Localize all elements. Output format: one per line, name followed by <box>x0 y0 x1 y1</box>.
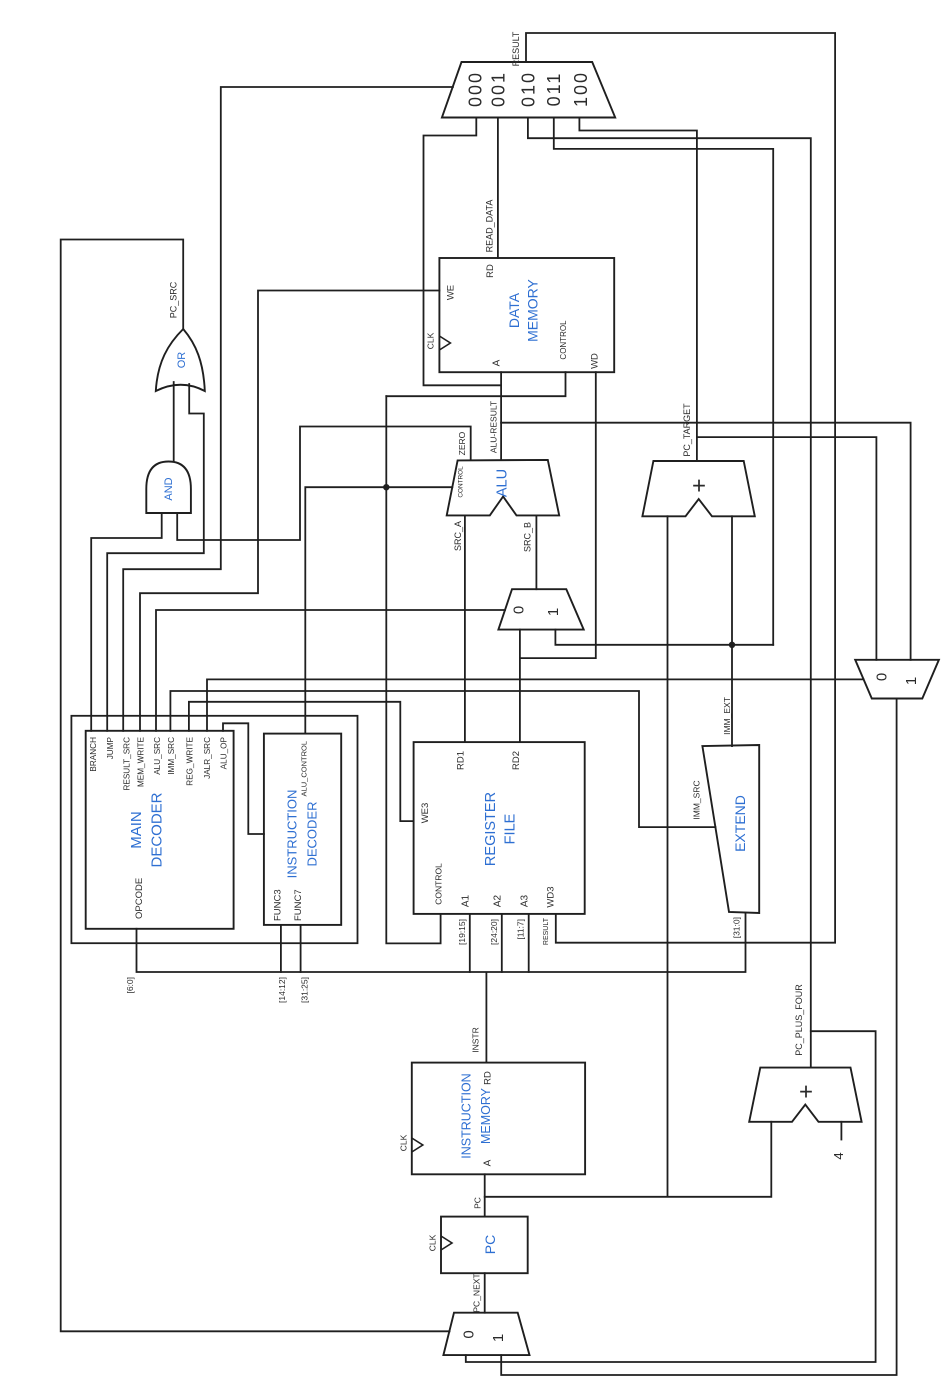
svg-text:PC_NEXT: PC_NEXT <box>472 1273 482 1312</box>
wire PC_PLUS_FOUR (adder output to result mux input 010) <box>528 119 811 1068</box>
svg-text:BRANCH: BRANCH <box>89 737 98 772</box>
svg-text:ALU: ALU <box>495 469 511 497</box>
svg-text:1: 1 <box>490 1334 507 1342</box>
svg-text:MEMORY: MEMORY <box>525 278 541 341</box>
wire IMM_EXT to result mux input 011 <box>554 119 773 645</box>
wire A1 tap [19:15] <box>469 914 471 972</box>
svg-text:RESULT: RESULT <box>543 917 550 945</box>
block PC register <box>428 1217 528 1274</box>
svg-text:WE3: WE3 <box>420 803 431 824</box>
svg-text:FUNC7: FUNC7 <box>293 889 304 921</box>
svg-text:[31:25]: [31:25] <box>300 977 310 1003</box>
svg-text:011: 011 <box>544 72 564 107</box>
svg-text:AND: AND <box>163 477 175 500</box>
svg-text:ALU_CONTROL: ALU_CONTROL <box>300 741 309 796</box>
svg-text:[11:7]: [11:7] <box>516 919 526 940</box>
svg-text:0: 0 <box>874 673 891 681</box>
svg-text:A1: A1 <box>461 894 472 907</box>
wire READ_DATA (data memory RD to result mux input 001) <box>497 119 499 258</box>
junction IMM_EXT <box>729 642 735 648</box>
wire BRANCH (main decoder to AND gate) <box>91 513 162 731</box>
adder A2 PC plus 4 (+) <box>749 1068 861 1122</box>
svg-text:RD: RD <box>483 1071 494 1085</box>
block instruction decoder <box>264 734 341 925</box>
block control unit outline <box>71 716 357 943</box>
svg-text:MEMORY: MEMORY <box>479 1087 493 1144</box>
mux M2 jalr mux (0/1) <box>855 660 939 699</box>
wire constant 4 into PC plus 4 adder <box>840 1122 842 1140</box>
svg-text:RD1: RD1 <box>456 751 467 770</box>
junction ALU_CONTROL <box>383 484 389 490</box>
wire ALU_OP (main decoder to instruction decoder) <box>223 723 264 834</box>
wire A2 tap [24:20] <box>501 914 503 972</box>
block register file <box>414 742 585 914</box>
wire instruction bus INSTR <box>137 913 746 1063</box>
svg-text:A2: A2 <box>493 894 504 907</box>
svg-text:[24:20]: [24:20] <box>489 919 499 945</box>
svg-text:4: 4 <box>831 1152 846 1159</box>
svg-text:PC: PC <box>473 1197 483 1209</box>
svg-text:[31:0]: [31:0] <box>732 917 742 938</box>
svg-text:FILE: FILE <box>503 813 519 844</box>
svg-text:REG_WRITE: REG_WRITE <box>186 736 195 785</box>
svg-text:DECODER: DECODER <box>149 792 166 867</box>
wire RD2 branch to data memory WD <box>520 372 596 658</box>
svg-text:INSTRUCTION: INSTRUCTION <box>285 790 300 879</box>
gate AND <box>146 462 191 514</box>
svg-text:DATA: DATA <box>506 292 522 328</box>
wire A3 tap [11:7] <box>528 914 530 972</box>
svg-text:RD2: RD2 <box>511 751 522 770</box>
wire JALR_SRC (select of jalr mux) <box>207 679 864 730</box>
wire ALU-RESULT branch to jalr mux input 1 <box>501 423 910 660</box>
wire IMM_SRC (main decoder to EXTEND) <box>170 691 715 827</box>
svg-text:SRC_B: SRC_B <box>523 522 533 552</box>
svg-text:001: 001 <box>489 71 509 107</box>
block extend unit <box>702 745 759 913</box>
svg-text:OPCODE: OPCODE <box>134 878 145 919</box>
wire PC_NEXT (PC mux output to PC) <box>484 1273 486 1313</box>
wire PC_TARGET branch to jalr mux input 0 <box>697 437 877 660</box>
wire PC_TARGET (adder output to result mux input 100) <box>579 119 697 462</box>
svg-text:[19:15]: [19:15] <box>457 919 467 945</box>
svg-text:MEM_WRITE: MEM_WRITE <box>137 736 146 787</box>
wire ZERO (ALU to AND gate) <box>177 427 471 541</box>
svg-text:READ_DATA: READ_DATA <box>485 200 495 253</box>
wire ALU_CONTROL (instruction decoder to ALU) <box>305 487 452 733</box>
svg-text:RD: RD <box>485 264 496 278</box>
block instruction memory <box>399 1063 586 1175</box>
svg-text:RESULT: RESULT <box>511 31 521 66</box>
svg-text:ZERO: ZERO <box>457 431 467 455</box>
wire JUMP (main decoder to OR gate) <box>107 384 204 731</box>
wire RESULT_SRC (result mux select) <box>123 87 453 731</box>
svg-text:WD3: WD3 <box>546 886 557 907</box>
svg-text:WE: WE <box>446 285 457 300</box>
svg-text:000: 000 <box>466 71 486 107</box>
wire PC_SRC (OR gate output to PC mux select) <box>61 240 450 1332</box>
svg-text:ALU_SRC: ALU_SRC <box>153 737 162 775</box>
wire PC (PC register to instruction memory A) <box>484 1174 486 1216</box>
svg-text:CONTROL: CONTROL <box>434 863 444 905</box>
block data memory <box>426 258 615 372</box>
wire REG_WRITE (main decoder to register file WE3) <box>189 702 414 821</box>
mux M1 result mux (5-way) <box>442 62 615 118</box>
wire FUNC7 tap [31:25] <box>300 925 302 972</box>
adder A1 PC target (+) <box>642 461 754 516</box>
wire RESULT (result mux output feedback to WD3) <box>526 33 835 943</box>
svg-text:CLK: CLK <box>428 1234 438 1251</box>
mux M3 ALU src B mux (0/1) <box>498 589 583 629</box>
svg-text:A: A <box>483 1159 494 1166</box>
svg-text:REGISTER: REGISTER <box>483 792 499 866</box>
svg-text:0: 0 <box>511 606 528 614</box>
wire PC_PLUS_FOUR branch to PC mux input 0 <box>466 1031 876 1362</box>
svg-text:DECODER: DECODER <box>305 801 320 866</box>
svg-text:RESULT_SRC: RESULT_SRC <box>123 737 132 791</box>
svg-text:010: 010 <box>519 71 539 107</box>
wire PC branch to adders <box>485 516 772 1197</box>
svg-text:CLK: CLK <box>399 1134 409 1151</box>
svg-text:SRC_A: SRC_A <box>453 521 463 551</box>
svg-text:IMM_SRC: IMM_SRC <box>167 737 176 775</box>
svg-text:CONTROL: CONTROL <box>559 320 568 360</box>
svg-text:[6:0]: [6:0] <box>125 977 135 994</box>
wire CONTROL to data memory <box>386 372 565 396</box>
mux M4 PC mux (0/1) <box>443 1313 529 1355</box>
svg-text:FUNC3: FUNC3 <box>273 889 284 921</box>
svg-text:PC_PLUS_FOUR: PC_PLUS_FOUR <box>794 984 804 1056</box>
wire ALU_RESULT to result mux input 000 <box>424 119 502 385</box>
svg-text:+: + <box>799 1079 813 1106</box>
svg-text:CONTROL: CONTROL <box>458 466 465 498</box>
wire MEM_WRITE to data memory WE <box>140 291 439 731</box>
svg-text:[14:12]: [14:12] <box>277 977 287 1003</box>
svg-text:PC: PC <box>482 1235 498 1254</box>
wire FUNC3 tap [14:12] <box>280 925 282 972</box>
block main decoder <box>86 731 234 929</box>
svg-text:IMM_SRC: IMM_SRC <box>692 780 702 819</box>
svg-text:1: 1 <box>545 608 562 616</box>
svg-text:A3: A3 <box>520 894 531 907</box>
gate OR <box>156 329 205 391</box>
svg-text:JALR_SRC: JALR_SRC <box>203 737 212 779</box>
wire RD1 to ALU SRC_A <box>464 515 466 742</box>
svg-text:100: 100 <box>571 71 591 107</box>
svg-text:JUMP: JUMP <box>106 736 115 759</box>
wire jalr mux output to PC mux input 1 <box>501 699 896 1376</box>
svg-text:0: 0 <box>461 1330 478 1338</box>
svg-text:IMM_EXT: IMM_EXT <box>722 697 732 735</box>
svg-text:INSTR: INSTR <box>471 1027 481 1053</box>
wire AND output to OR input <box>173 382 175 462</box>
svg-text:WD: WD <box>590 353 601 369</box>
svg-text:+: + <box>692 473 706 500</box>
svg-text:CLK: CLK <box>426 332 436 349</box>
wire RD2 to src B mux input 0 <box>519 630 521 743</box>
wire IMM_EXT trunk (EXTEND output) <box>555 516 773 746</box>
svg-text:PC_TARGET: PC_TARGET <box>682 403 692 457</box>
svg-text:INSTRUCTION: INSTRUCTION <box>460 1073 474 1158</box>
svg-text:ALU-RESULT: ALU-RESULT <box>489 401 499 453</box>
svg-text:OR: OR <box>176 352 188 369</box>
svg-text:EXTEND: EXTEND <box>732 795 748 852</box>
wire ALU_SRC (select of src B mux) <box>156 610 505 731</box>
wire src B mux output to ALU SRC_B <box>535 515 537 589</box>
svg-text:PC_SRC: PC_SRC <box>169 281 179 318</box>
svg-text:MAIN: MAIN <box>128 811 145 849</box>
wire ALU-RESULT (ALU output to data memory A) <box>500 372 502 460</box>
wire CONTROL branch to register file and data memory <box>386 396 440 943</box>
svg-text:A: A <box>492 359 503 366</box>
svg-text:ALU_OP: ALU_OP <box>220 736 229 769</box>
svg-text:1: 1 <box>903 677 920 685</box>
block ALU U1 <box>447 460 560 516</box>
